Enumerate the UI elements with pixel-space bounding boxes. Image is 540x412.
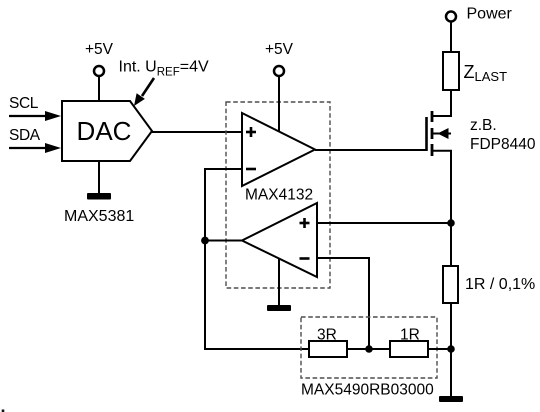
wire U2 output to feedback node xyxy=(205,240,242,242)
wire sense node to 1R sense resistor xyxy=(450,223,452,266)
label z.B. FDP8440 xyxy=(470,117,536,153)
SDA input arrow xyxy=(9,143,61,153)
DAC MAX5381 xyxy=(62,101,152,161)
svg-text:Power: Power xyxy=(467,6,513,23)
svg-text:MAX5381: MAX5381 xyxy=(64,208,134,225)
dashed box MAX4132 xyxy=(226,102,330,288)
wire +5V to DAC top xyxy=(98,76,100,101)
svg-text:SDA: SDA xyxy=(9,127,41,144)
wire U2 + input to sense node xyxy=(317,222,451,224)
wire sense resistor to ground rail xyxy=(450,303,452,396)
svg-text:+5V: +5V xyxy=(85,41,114,58)
svg-text:MAX5490RB03000: MAX5490RB03000 xyxy=(301,382,434,399)
wire U1 inverting input feedback xyxy=(205,169,309,349)
op-amp U1 MAX4132 xyxy=(242,113,315,186)
ground (output rail) xyxy=(439,396,463,402)
wire +5V supply to op-amp U1 xyxy=(278,77,280,132)
transistor Q1 FDP8440 xyxy=(427,90,452,223)
svg-text:+5V: +5V xyxy=(265,41,294,58)
node ground rail junction xyxy=(447,345,455,353)
node feedback junction xyxy=(201,237,209,245)
wire U2 - input to resistor junction xyxy=(317,258,369,349)
dashed box MAX5490RB03000 xyxy=(301,317,437,378)
resistor 1R / 0,1% xyxy=(443,266,458,303)
SCL input arrow xyxy=(9,111,61,121)
wire op-amp U1 output to MOSFET gate xyxy=(315,149,427,151)
wire U2 ground lead xyxy=(278,258,280,305)
wire 1R to ground rail xyxy=(428,348,451,350)
svg-text:FDP8440: FDP8440 xyxy=(470,136,536,153)
+5V supply terminal (DAC) xyxy=(85,41,114,76)
ground (DAC) xyxy=(87,193,111,200)
wire DAC output to op-amp U1 + input xyxy=(152,131,242,133)
node sense (U2 + input junction) xyxy=(447,219,455,227)
op-amp U2 MAX4132 (second half) xyxy=(242,203,317,277)
svg-text:DAC: DAC xyxy=(77,116,132,146)
wire 3R to 1R xyxy=(347,348,390,350)
annotation Int. UREF=4V xyxy=(119,59,209,107)
svg-text:3R: 3R xyxy=(317,327,337,344)
wire DAC bottom to ground xyxy=(98,161,100,194)
resistor 1R (divider) xyxy=(390,341,428,357)
ground (op-amp U2) xyxy=(267,305,291,311)
wire Power to ZLAST xyxy=(450,22,452,52)
Power terminal xyxy=(446,6,513,23)
svg-text:1R: 1R xyxy=(400,327,420,344)
svg-text:1R / 0,1%: 1R / 0,1% xyxy=(465,276,535,293)
wire ZLAST to MOSFET drain xyxy=(450,90,452,116)
svg-text:SCL: SCL xyxy=(9,95,39,112)
speck artifact bottom-left xyxy=(2,410,5,412)
+5V supply terminal (op-amp) xyxy=(265,41,294,76)
svg-text:z.B.: z.B. xyxy=(470,117,497,134)
resistor 3R xyxy=(309,341,347,357)
node divider junction xyxy=(365,345,373,353)
resistor ZLAST xyxy=(443,52,459,90)
svg-text:MAX4132: MAX4132 xyxy=(245,187,313,204)
